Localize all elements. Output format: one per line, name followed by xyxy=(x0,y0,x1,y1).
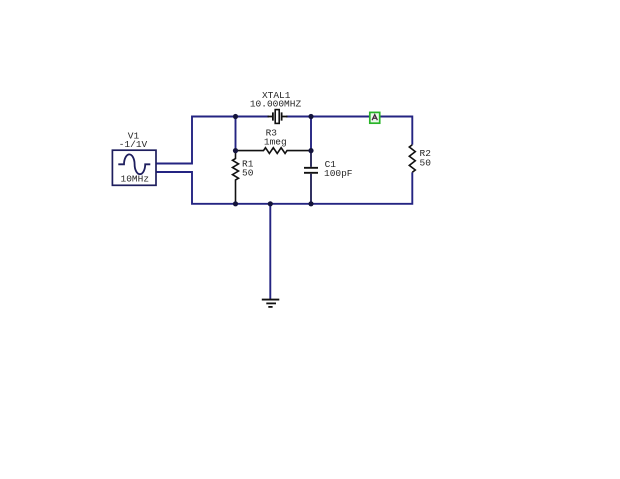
ground xyxy=(262,300,280,307)
node dot: R3 left xyxy=(233,148,238,153)
wire: top rail right segment to R2 branch top xyxy=(286,117,412,145)
crystal XTAL1 xyxy=(268,110,288,124)
wire: V1 top output to top rail left segment xyxy=(156,117,269,164)
resistor R3 xyxy=(236,148,312,154)
wire: ground branch xyxy=(269,204,271,300)
svg-text:100pF: 100pF xyxy=(324,168,353,179)
svg-text:10.000MHZ: 10.000MHZ xyxy=(250,99,302,110)
node A marker xyxy=(370,112,380,123)
node dot: bottom rail ground xyxy=(268,201,273,206)
node dot: bottom rail C1 xyxy=(308,201,313,206)
wire: C1 branch top (top rail to R3 row) xyxy=(310,117,312,151)
node dot: top rail right of crystal xyxy=(308,114,313,119)
node dot: bottom rail R1 xyxy=(233,201,238,206)
capacitor C1 xyxy=(304,151,318,204)
svg-text:50: 50 xyxy=(242,167,254,178)
resistor R1 xyxy=(233,151,239,204)
svg-text:1meg: 1meg xyxy=(264,137,287,148)
node dot: R3 right xyxy=(308,148,313,153)
wire: R1 branch top (top rail to R3 row) xyxy=(235,117,237,151)
resistor R2 xyxy=(409,145,415,173)
svg-text:-1/1V: -1/1V xyxy=(119,139,148,150)
svg-text:10MHz: 10MHz xyxy=(121,174,150,185)
voltage source V1 xyxy=(112,150,156,185)
node dot: top rail left of crystal xyxy=(233,114,238,119)
svg-text:50: 50 xyxy=(420,157,432,168)
wire: V1 bottom output to bottom rail xyxy=(156,172,412,204)
